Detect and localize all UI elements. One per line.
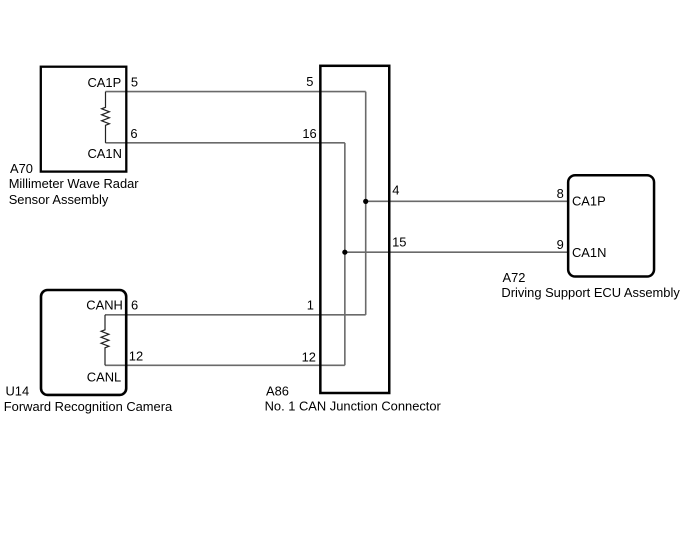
svg-text:Forward Recognition Camera: Forward Recognition Camera [4,399,173,414]
svg-text:12: 12 [129,348,143,363]
svg-text:5: 5 [306,74,313,89]
svg-text:No. 1 CAN Junction Connector: No. 1 CAN Junction Connector [265,399,442,414]
svg-text:U14: U14 [6,383,30,398]
svg-text:9: 9 [557,237,564,252]
resistor termination inside U14 [101,315,109,365]
junction node dot on right bus at pin4 [363,199,368,204]
svg-text:CA1N: CA1N [572,245,606,260]
svg-text:16: 16 [302,126,316,141]
box A70 Millimeter Wave Radar Sensor Assembly [41,67,127,172]
svg-text:CANH: CANH [86,297,123,312]
svg-text:12: 12 [302,349,316,364]
svg-text:Driving Support ECU Assembly: Driving Support ECU Assembly [501,285,680,300]
wire A70 CA1N pin6 to junction pin16 [106,142,345,144]
svg-text:6: 6 [131,297,138,312]
box A86 No.1 CAN Junction Connector [320,66,389,393]
wire U14 CANH pin6 to junction pin1 [105,314,366,316]
svg-text:1: 1 [307,297,314,312]
svg-text:CA1P: CA1P [88,75,122,90]
wire junction right bus vertical (pin5 to pin1) [365,92,367,315]
svg-text:CANL: CANL [87,369,121,384]
svg-text:5: 5 [131,75,138,90]
svg-text:4: 4 [392,182,399,197]
svg-text:CA1P: CA1P [572,194,606,209]
junction node dot on left bus at pin15 [342,250,347,255]
svg-text:Sensor Assembly: Sensor Assembly [9,192,109,207]
svg-text:A72: A72 [503,270,526,285]
wire junction pin4 to A72 pin8 [366,200,569,202]
wire junction left bus vertical (pin16 to pin12) [344,143,346,365]
wire U14 CANL pin12 to junction pin12 [105,364,345,366]
wire A70 pin5 to junction right bus [106,91,366,93]
svg-text:A86: A86 [266,384,289,399]
svg-text:15: 15 [392,235,406,250]
box U14 Forward Recognition Camera [41,290,126,395]
svg-text:6: 6 [130,126,137,141]
wire junction pin15 to A72 pin9 [345,251,568,253]
svg-text:Millimeter Wave Radar: Millimeter Wave Radar [9,176,140,191]
resistor termination inside A70 [102,92,110,143]
svg-text:CA1N: CA1N [88,146,122,161]
svg-text:A70: A70 [10,161,33,176]
box A72 Driving Support ECU Assembly [568,175,654,276]
svg-text:8: 8 [557,186,564,201]
